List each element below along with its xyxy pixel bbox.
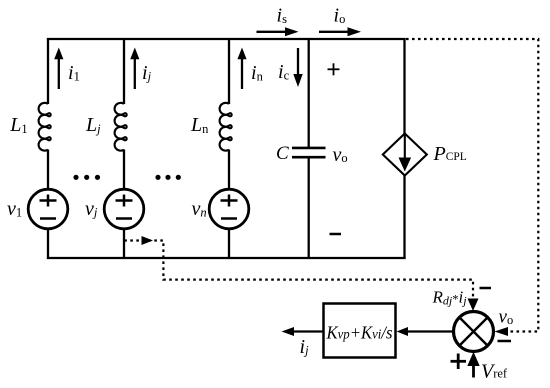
svg-text:PCPL: PCPL: [433, 143, 467, 165]
wire branch1 bottom: [47, 229, 49, 259]
dots ellipsis right: [155, 175, 181, 180]
wire top bus: [47, 38, 406, 40]
svg-text:Lj: Lj: [85, 114, 101, 136]
svg-text:is: is: [277, 5, 288, 27]
sign minus top of summing: [480, 287, 492, 290]
inductor Lj: [115, 103, 127, 151]
wire dotted tap Rdj*ij from vj branch: [124, 241, 473, 304]
voltage source Vn: [209, 189, 249, 229]
voltage source V1: [28, 189, 68, 229]
svg-text:io: io: [334, 5, 346, 27]
wire branch3 middle: [228, 150, 230, 190]
arrow Vref input: [472, 365, 475, 378]
wire branch3 top: [228, 38, 230, 104]
inductor Ln: [220, 103, 232, 151]
wire bottom bus: [47, 257, 406, 259]
sign minus right of summing: [498, 340, 512, 343]
sign minus output port: [330, 233, 342, 236]
arrow current io: [319, 31, 350, 33]
svg-text:vn: vn: [192, 198, 207, 220]
block Kvp+Kvi/s: [324, 304, 396, 358]
arrow current is: [257, 31, 288, 33]
svg-text:i1: i1: [68, 62, 80, 84]
svg-text:ic: ic: [278, 61, 290, 83]
wire capacitor branch bottom: [308, 158, 310, 259]
wire branch1 top: [47, 38, 49, 104]
svg-text:vo: vo: [499, 307, 514, 328]
svg-text:Rdj*ij: Rdj*ij: [432, 288, 468, 308]
svg-text:ij: ij: [142, 62, 152, 84]
wire branch2 bottom: [123, 229, 125, 259]
svg-text:vj: vj: [85, 198, 98, 220]
arrow current ij: [134, 58, 136, 90]
arrowhead Rdj*ij into summing junction top: [468, 299, 479, 312]
dots ellipsis left: [73, 175, 100, 180]
arrow current i1: [58, 58, 60, 90]
svg-text:Vref: Vref: [481, 361, 508, 383]
svg-text:C: C: [276, 143, 289, 164]
svg-text:L1: L1: [9, 114, 27, 136]
svg-text:vo: vo: [333, 144, 348, 166]
arrow current ic: [297, 48, 299, 75]
sign plus bottom of summing: [451, 360, 467, 363]
dependent source diamond PCPL: [383, 134, 427, 176]
wire CPL branch bottom: [403, 176, 405, 260]
arrow current in: [241, 58, 243, 90]
summing junction: [454, 312, 494, 352]
arrowhead on tap line: [142, 236, 154, 245]
wire branch3 bottom: [228, 229, 230, 259]
wire capacitor branch top: [308, 38, 310, 147]
wire summing to block: [408, 330, 454, 332]
arrow output ij: [294, 330, 324, 332]
svg-text:ij: ij: [300, 336, 310, 358]
inductor L1: [39, 103, 51, 151]
wire CPL branch top: [403, 38, 405, 134]
svg-text:v1: v1: [7, 198, 22, 220]
voltage source Vj: [104, 189, 144, 229]
svg-text:Ln: Ln: [190, 114, 209, 136]
wire branch2 top: [123, 38, 125, 104]
svg-text:Kvp+Kvi/s: Kvp+Kvi/s: [326, 323, 393, 343]
wire branch2 middle: [123, 150, 125, 190]
sign plus output port: [328, 68, 340, 70]
capacitor C: [292, 147, 326, 150]
svg-text:in: in: [251, 62, 264, 84]
arrowhead vo into summing junction right: [495, 327, 509, 336]
wire branch1 middle: [47, 150, 49, 190]
wire dotted feedback vo from top-right node: [406, 39, 538, 332]
